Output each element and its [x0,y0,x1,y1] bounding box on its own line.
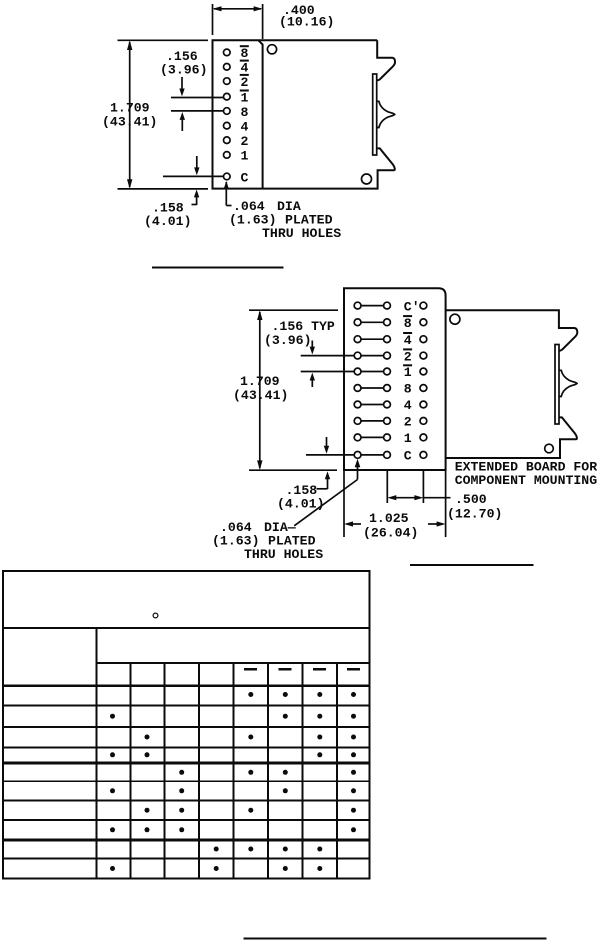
svg-text:THRU HOLES: THRU HOLES [262,226,341,241]
svg-text:C: C [241,170,249,185]
svg-text:COMPONENT MOUNTING: COMPONENT MOUNTING [455,473,598,488]
svg-text:8: 8 [241,105,249,120]
svg-text:C: C [404,449,412,464]
svg-text:THRU HOLES: THRU HOLES [244,547,323,562]
svg-text:1.709: 1.709 [240,374,280,389]
svg-text:(4.01): (4.01) [144,214,191,229]
svg-text:1.025: 1.025 [369,511,409,526]
svg-text:2: 2 [404,349,412,364]
svg-text:(12.70): (12.70) [447,507,502,522]
svg-text:(3.96): (3.96) [264,333,311,348]
svg-text:4: 4 [241,120,249,135]
svg-text:(43.41): (43.41) [102,115,157,130]
svg-text:.500: .500 [455,492,487,507]
svg-text:4: 4 [404,333,412,348]
svg-text:8: 8 [404,316,412,331]
svg-text:(43.41): (43.41) [233,388,288,403]
svg-text:1: 1 [404,365,412,380]
svg-text:1: 1 [404,431,412,446]
svg-text:2: 2 [241,134,249,149]
svg-text:.156 TYP: .156 TYP [272,319,335,334]
svg-text:8: 8 [241,46,249,61]
svg-text:(10.16): (10.16) [279,15,334,30]
svg-text:1.709: 1.709 [110,101,150,116]
svg-text:2: 2 [404,415,412,430]
svg-text:(26.04): (26.04) [363,526,418,541]
svg-text:1: 1 [241,149,249,164]
svg-text:2: 2 [241,75,249,90]
svg-text:1: 1 [241,91,249,106]
svg-text:(3.96): (3.96) [160,63,207,78]
svg-text:4: 4 [404,398,412,413]
svg-text:8: 8 [404,382,412,397]
svg-text:C': C' [404,299,420,314]
svg-text:4: 4 [241,61,249,76]
